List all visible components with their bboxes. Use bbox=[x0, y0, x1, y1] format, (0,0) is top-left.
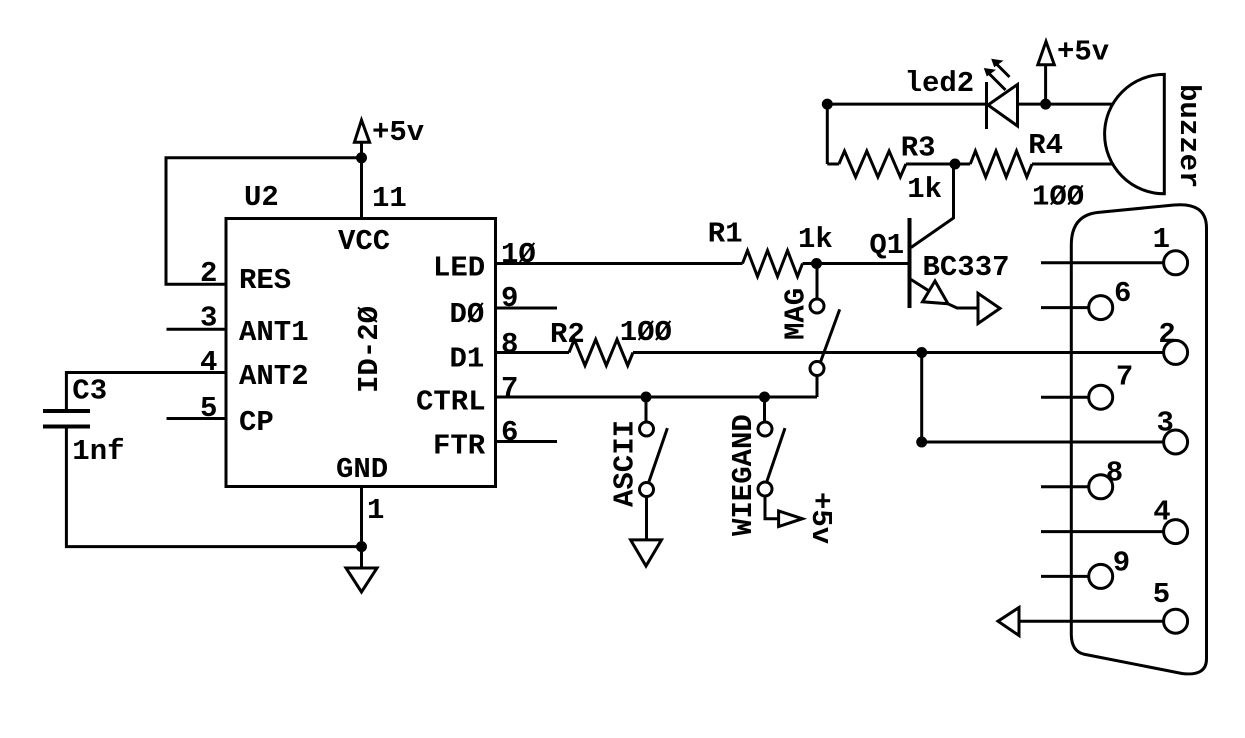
resistor R2 bbox=[550, 316, 672, 366]
switch MAG bbox=[780, 264, 840, 398]
switch ASCII bbox=[608, 397, 667, 540]
svg-text:ASCII: ASCII bbox=[608, 420, 641, 507]
svg-text:CP: CP bbox=[239, 406, 274, 439]
svg-text:VCC: VCC bbox=[338, 225, 390, 258]
wire into R3 bbox=[827, 163, 839, 166]
wire R1 to Q1 base bbox=[803, 262, 910, 265]
node junction R1/MAG bbox=[811, 258, 822, 269]
svg-text:C3: C3 bbox=[72, 375, 107, 408]
svg-text:6: 6 bbox=[501, 416, 518, 449]
node junction led row left bbox=[822, 99, 833, 110]
switch WIEGAND bbox=[727, 397, 785, 536]
wire R4 to buzzer bbox=[1032, 163, 1113, 166]
svg-text:LED: LED bbox=[433, 252, 485, 285]
ground symbol below ASCII bbox=[631, 540, 662, 566]
svg-text:U2: U2 bbox=[244, 181, 279, 214]
pin 3 circle bbox=[1164, 430, 1188, 454]
wire DB9 pin 7 bbox=[1041, 396, 1089, 399]
wire DB9 pin 9 bbox=[1041, 575, 1089, 578]
svg-text:1nf: 1nf bbox=[72, 435, 124, 468]
node junction +5v / buzzer bbox=[1040, 99, 1051, 110]
wire pin 5 CP stub bbox=[167, 417, 227, 420]
wire DB9 pin 2 (already from R2) pin 2 circle bbox=[1164, 340, 1188, 364]
wire DB9 pin 3 bbox=[922, 441, 1164, 444]
ground symbol below U2 bbox=[346, 547, 377, 592]
svg-text:R4: R4 bbox=[1028, 129, 1063, 162]
svg-text:Q1: Q1 bbox=[869, 229, 904, 262]
svg-text:ANT1: ANT1 bbox=[239, 316, 309, 349]
resistor R1 bbox=[708, 217, 833, 276]
wire DB9 pin 8 bbox=[1041, 485, 1089, 488]
power +5v symbol top right bbox=[1038, 36, 1109, 105]
svg-text:FTR: FTR bbox=[433, 430, 486, 463]
svg-text:MAG: MAG bbox=[780, 288, 813, 340]
capacitor C3 bbox=[43, 375, 125, 468]
pin 9 circle bbox=[1089, 564, 1113, 588]
wire DB9 pin 6 bbox=[1041, 306, 1089, 309]
wire drop to DB9 pin3 row bbox=[920, 353, 923, 443]
svg-text:1: 1 bbox=[367, 494, 384, 527]
svg-text:2: 2 bbox=[1158, 318, 1175, 351]
svg-text:1k: 1k bbox=[798, 223, 833, 256]
svg-text:D1: D1 bbox=[450, 343, 485, 376]
pin 6 circle bbox=[1089, 296, 1113, 320]
node junction at pin3 row bbox=[916, 437, 927, 448]
pin 5 circle bbox=[1164, 609, 1188, 633]
DB9 connector body bbox=[1071, 205, 1206, 674]
svg-text:RES: RES bbox=[239, 264, 291, 297]
svg-text:WIEGAND: WIEGAND bbox=[727, 414, 760, 536]
svg-text:1k: 1k bbox=[907, 173, 942, 206]
wire from led row down to R3 bbox=[826, 104, 829, 164]
wire DB9 pin 5 bbox=[1019, 620, 1164, 623]
wire R3 to junction bbox=[906, 163, 970, 166]
wire DB9 pin 1 bbox=[1041, 261, 1164, 264]
svg-text:9: 9 bbox=[1113, 546, 1130, 579]
buzzer bbox=[1105, 74, 1205, 193]
svg-text:1Ø: 1Ø bbox=[501, 238, 536, 271]
svg-text:led2: led2 bbox=[905, 67, 975, 100]
svg-text:R3: R3 bbox=[901, 132, 936, 165]
svg-text:ANT2: ANT2 bbox=[239, 360, 309, 393]
node junction CTRL/ASCII bbox=[641, 392, 652, 403]
svg-text:R1: R1 bbox=[708, 217, 743, 250]
svg-text:7: 7 bbox=[501, 372, 518, 405]
svg-text:+5v: +5v bbox=[804, 492, 837, 544]
node junction CTRL/WIEGAND bbox=[759, 392, 770, 403]
arrow out of DB9 pin 5 bbox=[998, 608, 1019, 636]
svg-text:ID-2Ø: ID-2Ø bbox=[353, 306, 386, 393]
svg-text:R2: R2 bbox=[550, 318, 585, 351]
resistor R3 bbox=[839, 132, 942, 206]
resistor R4 bbox=[970, 129, 1084, 214]
svg-text:1: 1 bbox=[1153, 223, 1170, 256]
wire LED pin 10 to R1 bbox=[496, 262, 743, 265]
wire led row bbox=[827, 103, 986, 106]
node junction R3/R4/collector bbox=[950, 159, 961, 170]
svg-text:8: 8 bbox=[1106, 457, 1123, 490]
wire pin 3 ANT1 stub bbox=[167, 328, 227, 331]
wire pin 4 ANT2 to C3 bbox=[66, 373, 226, 412]
svg-text:+5v: +5v bbox=[372, 116, 424, 149]
svg-text:3: 3 bbox=[1157, 407, 1174, 440]
svg-text:1ØØ: 1ØØ bbox=[1032, 181, 1084, 214]
svg-text:7: 7 bbox=[1116, 360, 1133, 393]
pin 7 circle bbox=[1089, 385, 1113, 409]
led2 emission arrows bbox=[984, 59, 1010, 90]
svg-text:11: 11 bbox=[372, 182, 407, 215]
wire led2 to +5v node bbox=[1018, 103, 1113, 106]
wire loop from +5v node to RES pin 2 bbox=[166, 158, 362, 284]
node junction at pin1/ground bbox=[356, 541, 367, 552]
diode led2 bbox=[905, 67, 1018, 129]
svg-text:buzzer: buzzer bbox=[1172, 84, 1205, 188]
svg-text:+5v: +5v bbox=[1057, 36, 1109, 69]
transistor Q1 BC337 bbox=[869, 164, 1009, 324]
power +5v symbol top left bbox=[354, 116, 424, 158]
wire pin 1 GND bbox=[360, 487, 363, 547]
pin 1 circle bbox=[1164, 251, 1188, 275]
svg-text:6: 6 bbox=[1114, 277, 1131, 310]
wire pin 11 VCC bbox=[360, 158, 363, 218]
+5v arrow at WIEGAND bbox=[779, 492, 837, 544]
wire DB9 pin 4 bbox=[1041, 530, 1164, 533]
wire CTRL pin 7 bbox=[496, 396, 818, 399]
node junction D1 line / drop to pin3 bbox=[916, 347, 927, 358]
op-amp U2 IC body ID-20 bbox=[226, 219, 496, 487]
node junction at +5v / pin 11 bbox=[356, 152, 367, 163]
svg-text:CTRL: CTRL bbox=[416, 386, 486, 419]
svg-text:DØ: DØ bbox=[450, 298, 485, 331]
svg-text:GND: GND bbox=[336, 453, 388, 486]
svg-text:4: 4 bbox=[200, 346, 217, 379]
svg-text:1ØØ: 1ØØ bbox=[620, 316, 672, 349]
svg-text:5: 5 bbox=[1153, 578, 1170, 611]
wire C3 bottom to ground rail bbox=[66, 427, 361, 547]
svg-text:5: 5 bbox=[200, 392, 217, 425]
svg-text:4: 4 bbox=[1153, 495, 1170, 528]
pin 4 circle bbox=[1164, 520, 1188, 544]
svg-text:BC337: BC337 bbox=[923, 251, 1010, 284]
wire D0 pin 9 stub bbox=[496, 307, 558, 310]
svg-text:9: 9 bbox=[501, 282, 518, 315]
svg-text:8: 8 bbox=[501, 328, 518, 361]
svg-text:2: 2 bbox=[200, 257, 217, 290]
wire R2 to DB9 pin2 bbox=[633, 351, 1164, 354]
pin 8 circle bbox=[1089, 475, 1113, 499]
wire FTR pin 6 stub bbox=[496, 440, 558, 443]
wire D1 pin 8 to R2 bbox=[496, 351, 570, 354]
